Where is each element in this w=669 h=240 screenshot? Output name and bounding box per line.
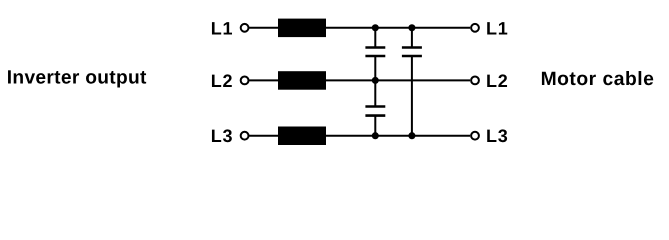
svg-text:L1: L1 <box>486 18 509 38</box>
svg-text:L3: L3 <box>486 126 509 146</box>
svg-text:L1: L1 <box>211 18 234 38</box>
svg-text:Inverter output: Inverter output <box>7 67 147 88</box>
svg-text:Motor cable: Motor cable <box>541 69 655 90</box>
svg-text:L2: L2 <box>486 71 509 91</box>
svg-text:L3: L3 <box>211 126 234 146</box>
svg-text:L2: L2 <box>211 71 234 91</box>
